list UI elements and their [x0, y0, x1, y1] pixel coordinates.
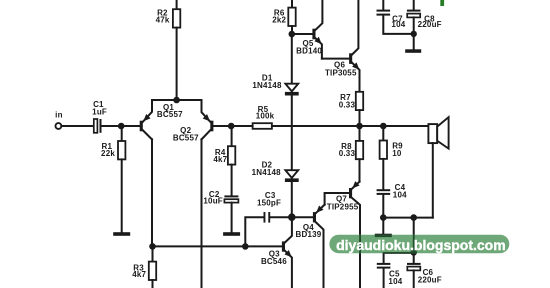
svg-text:4k7: 4k7: [132, 270, 146, 279]
capacitor C4 104: [377, 183, 407, 200]
svg-text:22k: 22k: [101, 149, 115, 158]
svg-text:in: in: [55, 111, 63, 120]
svg-text:104: 104: [388, 277, 402, 286]
transistor Q5 BD140: [296, 0, 322, 59]
wire bottom ground rail: [383, 217, 433, 219]
wire top rail to R2: [176, 0, 178, 9]
wire R3 bottom: [152, 280, 154, 288]
wire C5 link: [384, 252, 414, 254]
wire Q4 base to node: [292, 216, 313, 218]
wire D1 to D2: [291, 96, 293, 171]
green dash top right: [440, 0, 444, 6]
wire Q2 collector down: [201, 139, 203, 288]
node Q5 base / diode top: [289, 31, 296, 38]
svg-text:0.33: 0.33: [339, 149, 356, 158]
wire speaker return: [432, 143, 434, 218]
wire C1 to Q1 base: [102, 125, 140, 127]
wire diode column upper: [291, 34, 293, 84]
wire output rail R5 to speaker: [272, 125, 429, 127]
resistor R8 0.33: [339, 126, 363, 159]
svg-text:150pF: 150pF: [257, 199, 281, 208]
node R9 on rail: [380, 123, 387, 130]
speaker: [428, 117, 448, 148]
svg-text:0.33: 0.33: [339, 100, 356, 109]
node rail to C5/C6: [410, 214, 417, 221]
svg-text:TIP3055: TIP3055: [325, 68, 357, 77]
wire top rail to R6: [291, 0, 293, 8]
wire C4 to ground rail: [382, 195, 384, 218]
svg-text:100k: 100k: [256, 111, 275, 120]
svg-text:220uF: 220uF: [418, 276, 442, 285]
wire rail down to C5/C6 node: [413, 218, 415, 253]
svg-text:220uF: 220uF: [418, 20, 442, 29]
resistor R3 4k7: [132, 246, 156, 280]
svg-text:1N4148: 1N4148: [252, 168, 282, 177]
transistor Q4 BD139: [296, 205, 325, 288]
input terminal "in": [55, 111, 63, 129]
resistor R5 100k: [253, 105, 275, 129]
node Q2 base junction: [228, 123, 235, 130]
node input junction: [118, 123, 125, 130]
resistor R6 2k2: [272, 8, 295, 26]
wire input to C1: [62, 125, 94, 127]
resistor R7 0.33: [339, 92, 363, 110]
svg-text:BD140: BD140: [296, 46, 322, 55]
wire C8 to ground: [413, 17, 415, 48]
svg-text:104: 104: [393, 191, 407, 200]
wire C7 to C8 node: [383, 16, 413, 34]
wire C2 to ground: [231, 203, 233, 233]
capacitor C5 104: [377, 263, 403, 286]
wire R7 to output rail: [359, 110, 361, 126]
ground mid bar: [375, 234, 392, 237]
transistor Q3 BC546: [261, 217, 292, 288]
svg-text:TIP2955: TIP2955: [327, 202, 359, 211]
wire R9 to C4: [382, 159, 384, 189]
svg-text:BC557: BC557: [173, 134, 199, 143]
resistor R2 47k: [156, 8, 181, 27]
wire R8 to Q7 emitter: [359, 159, 361, 182]
resistor R4 4k7: [213, 126, 235, 165]
wire C5 bottom: [383, 269, 385, 288]
wire D2 to Q4 base node: [291, 182, 293, 217]
diode D1 1N4148: [252, 74, 298, 96]
svg-text:BC557: BC557: [157, 110, 183, 119]
node C5/C6 junction: [410, 249, 417, 256]
wire C3 left corner down: [245, 217, 263, 246]
transistor Q6 TIP3055: [325, 0, 360, 92]
svg-text:47k: 47k: [156, 16, 170, 25]
capacitor C3 150pF: [257, 191, 281, 223]
resistor R1 22k: [101, 126, 125, 159]
svg-text:104: 104: [391, 20, 405, 29]
transistor Q2 BC557: [173, 100, 214, 143]
wire feedback to Q3 base: [245, 245, 282, 247]
wire segments under watermark (dark green): [359, 235, 417, 256]
ground below R1: [113, 232, 130, 236]
node R3 junction: [149, 243, 156, 250]
wire top rail to C7: [382, 0, 384, 10]
node C4/ground rail: [380, 214, 387, 221]
svg-text:BC546: BC546: [261, 257, 287, 266]
wire rail ground stub: [382, 218, 384, 234]
svg-text:1uF: 1uF: [92, 107, 107, 116]
diode D2 1N4148: [252, 161, 299, 183]
wire R1 to ground: [121, 159, 123, 232]
ground below C8: [405, 49, 421, 53]
wire Q2 base to node: [213, 125, 231, 127]
node C7/C8 junction: [411, 31, 417, 37]
watermark pill diyaudioku.blogspot.com: [329, 235, 509, 254]
node feedback junction: [242, 243, 249, 250]
transistor Q7 TIP2955: [327, 181, 360, 288]
capacitor C2 10uF: [203, 190, 238, 206]
wire node to C6: [413, 252, 415, 263]
wire node to Q5 base: [292, 33, 313, 35]
svg-text:4k7: 4k7: [213, 155, 227, 164]
wire R6 to Q5 base node: [291, 26, 293, 34]
resistor R9 10: [380, 126, 404, 159]
wire link down to C5: [383, 253, 385, 263]
wire Q1 collector down: [151, 139, 153, 246]
svg-text:2k2: 2k2: [272, 16, 286, 25]
svg-text:diyaudioku.blogspot.com: diyaudioku.blogspot.com: [336, 237, 506, 253]
wire R4 to C2: [231, 165, 233, 196]
node R7/R8 on rail: [356, 123, 363, 130]
wire C6 bottom: [413, 270, 415, 288]
node Q4 base / D2 bottom: [288, 213, 296, 221]
wire top rail to C8: [413, 0, 415, 10]
wire node to R5: [231, 125, 252, 127]
wire Q7 base to Q4 emitter: [325, 193, 349, 205]
svg-text:10uF: 10uF: [203, 197, 222, 206]
capacitor C8 220uF: [407, 10, 442, 29]
wire emitter Y-bar: [152, 99, 202, 101]
wire Q5 to Q6 base: [322, 58, 349, 60]
svg-text:10: 10: [392, 149, 402, 158]
svg-text:BD139: BD139: [296, 230, 322, 239]
wire C3 right to Q4 base node: [270, 216, 292, 218]
ground below C2: [223, 232, 240, 236]
capacitor C6 220uF: [407, 263, 442, 285]
capacitor C7 104: [377, 10, 406, 29]
svg-text:1N4148: 1N4148: [252, 81, 282, 90]
transistor Q1 BC557: [140, 100, 183, 139]
capacitor C1 1uF: [92, 100, 107, 133]
node Q1/Q2 emitters: [173, 97, 180, 104]
wire R2 to emitter node: [176, 28, 178, 100]
wire feedback R3 node: [153, 245, 246, 247]
